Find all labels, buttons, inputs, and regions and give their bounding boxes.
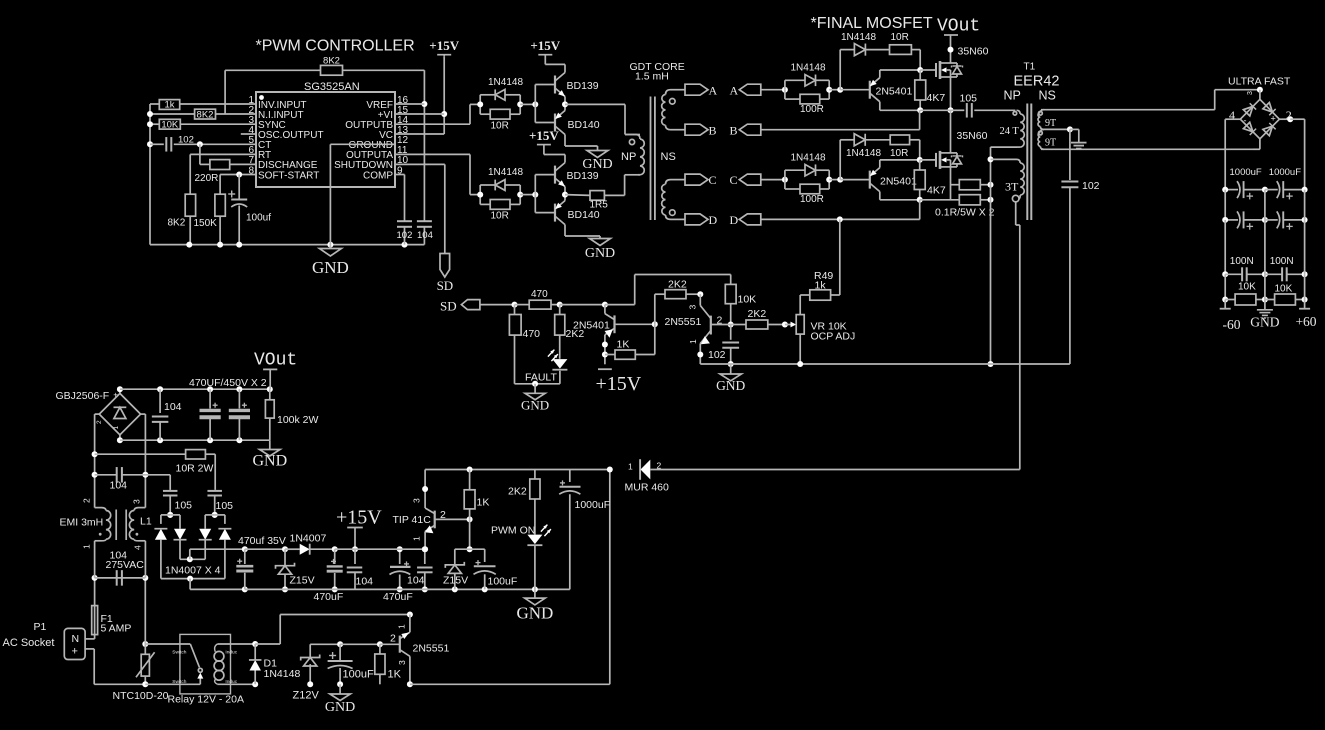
svg-text:102: 102 bbox=[178, 135, 194, 146]
svg-text:1: 1 bbox=[412, 536, 422, 541]
label 1000uF x2 bbox=[1230, 167, 1302, 178]
wire socket N to fuse bbox=[85, 635, 95, 639]
wire fuse up to rail bbox=[92, 575, 98, 601]
resistor 470 (pulldown) bbox=[509, 305, 540, 384]
svg-text:102: 102 bbox=[397, 230, 413, 241]
capacitor 470UF/450V A bbox=[200, 389, 221, 440]
svg-text:NP: NP bbox=[621, 151, 636, 163]
svg-text:470UF/450V X 2: 470UF/450V X 2 bbox=[189, 377, 267, 389]
led FAULT bbox=[525, 350, 567, 387]
svg-text:C: C bbox=[709, 173, 717, 187]
transistor BD140 (lower A) bbox=[535, 104, 599, 134]
label T1 EER42 bbox=[1004, 62, 1060, 103]
diode block right pair 1N4007 bbox=[199, 512, 232, 579]
connector D out bbox=[685, 213, 718, 227]
ground GND (relay) bbox=[325, 684, 355, 715]
svg-text:1.5 mH: 1.5 mH bbox=[635, 71, 669, 83]
wire NTC top from EMI bbox=[142, 575, 148, 644]
svg-text:3: 3 bbox=[412, 498, 422, 503]
connector P1 AC Socket bbox=[3, 621, 86, 660]
svg-text:100N: 100N bbox=[1230, 256, 1254, 267]
resistor 10K out right bbox=[1265, 274, 1308, 305]
power +15V (driver A) bbox=[530, 38, 565, 72]
svg-text:100uF: 100uF bbox=[343, 669, 374, 681]
wire z12 base rail bbox=[310, 641, 400, 647]
wire pin11 OUTPUTA bbox=[395, 154, 480, 194]
svg-text:3: 3 bbox=[132, 499, 142, 504]
svg-text:-60: -60 bbox=[1223, 317, 1241, 332]
svg-text:Z12V: Z12V bbox=[293, 690, 320, 702]
power +15V (aux) bbox=[336, 507, 382, 553]
capacitor 1000uF (boost) bbox=[559, 470, 610, 590]
capacitor 102 (T1 snubber) bbox=[1061, 129, 1099, 192]
left bus wire bbox=[147, 104, 153, 245]
svg-text:2N5551: 2N5551 bbox=[413, 643, 450, 655]
label 100N x2 bbox=[1230, 256, 1294, 267]
svg-text:GND: GND bbox=[516, 604, 553, 623]
svg-text:Relay 12V - 20A: Relay 12V - 20A bbox=[168, 694, 244, 706]
svg-text:D: D bbox=[709, 213, 718, 227]
resistor 1K (base) bbox=[605, 324, 655, 359]
connector C out bbox=[685, 173, 717, 187]
wire 102 down to sense bbox=[991, 187, 1070, 364]
diode 1N4148 / resistor 100R (input C) bbox=[782, 152, 843, 205]
svg-text:GND: GND bbox=[312, 258, 349, 277]
resistor 1R5 bbox=[565, 191, 625, 211]
wire sense line down bbox=[988, 159, 994, 367]
svg-text:2: 2 bbox=[82, 498, 92, 503]
svg-text:10K: 10K bbox=[1238, 282, 1256, 293]
capacitor 470uF (filter1) bbox=[314, 549, 344, 603]
svg-text:10R: 10R bbox=[491, 120, 509, 131]
svg-text:FAULT: FAULT bbox=[525, 372, 557, 384]
capacitor 1000uF out row2 right bbox=[1265, 190, 1308, 230]
wire feedback right to VREF bbox=[421, 70, 427, 221]
svg-text:1N4007: 1N4007 bbox=[290, 532, 327, 544]
svg-text:0.1R/5W X 2: 0.1R/5W X 2 bbox=[935, 206, 995, 218]
svg-text:1k: 1k bbox=[164, 100, 174, 111]
transistor 2N5401 (gate driver C) bbox=[840, 157, 923, 200]
svg-text:+60: +60 bbox=[1295, 314, 1316, 329]
svg-text:N: N bbox=[72, 633, 80, 645]
connector A in bbox=[730, 83, 785, 97]
wire emitters node A bbox=[562, 97, 568, 111]
diode 1N4148 / resistor 10R (driver B) bbox=[477, 167, 538, 222]
title PWM CONTROLLER bbox=[256, 38, 415, 55]
wire feedback left bbox=[224, 70, 226, 114]
svg-text:+: + bbox=[72, 646, 78, 658]
zener Z12V bbox=[293, 644, 320, 701]
svg-text:-: - bbox=[1244, 116, 1247, 126]
svg-text:8K2: 8K2 bbox=[168, 218, 186, 229]
svg-text:24 T: 24 T bbox=[1000, 126, 1020, 137]
resistor 1K (tip base) bbox=[464, 470, 489, 520]
capacitor 104 (aux b) bbox=[407, 546, 433, 592]
svg-text:AC Socket: AC Socket bbox=[3, 637, 55, 649]
svg-text:1: 1 bbox=[82, 544, 92, 549]
wire aux gnd rail bbox=[245, 586, 570, 592]
capacitor 105 (dc block) bbox=[951, 93, 1016, 118]
title FINAL MOSFET bbox=[811, 15, 933, 32]
svg-text:D: D bbox=[730, 213, 739, 227]
svg-text:SG3525AN: SG3525AN bbox=[304, 81, 360, 93]
mosfet 35N60 (lower) bbox=[936, 130, 988, 169]
resistor 150K bbox=[194, 194, 226, 244]
svg-text:*PWM CONTROLLER: *PWM CONTROLLER bbox=[256, 38, 415, 55]
capacitor 470uf 35V bbox=[236, 535, 286, 589]
svg-text:ULTRA FAST: ULTRA FAST bbox=[1228, 76, 1291, 88]
wire BD140 B collector to gnd bbox=[565, 225, 600, 239]
earth ground GND (output) bbox=[1250, 300, 1279, 330]
GDT secondary NS upper winding bbox=[662, 90, 685, 130]
svg-text:104: 104 bbox=[407, 575, 425, 587]
power +15V (driver B) bbox=[529, 128, 565, 163]
connector A out bbox=[685, 83, 718, 97]
svg-text:1: 1 bbox=[628, 462, 633, 472]
resistor 10K out left bbox=[1222, 274, 1268, 305]
svg-text:A: A bbox=[730, 83, 739, 97]
IC U1 SG3525AN body bbox=[256, 81, 395, 187]
svg-text:104: 104 bbox=[164, 401, 182, 413]
svg-text:*FINAL MOSFET: *FINAL MOSFET bbox=[811, 15, 933, 32]
relay box Relay 12V - 20A bbox=[168, 634, 244, 705]
svg-text:TIP 41C: TIP 41C bbox=[393, 514, 432, 526]
capacitor 100uF (base) bbox=[474, 549, 518, 589]
transistor BD139 (upper A) bbox=[535, 73, 598, 105]
wire pin14 OUTPUTB bbox=[395, 104, 480, 124]
wire pin16 VREF stub bbox=[395, 103, 424, 105]
T1 secondary 9T upper bbox=[1038, 110, 1056, 130]
svg-text:+15V: +15V bbox=[429, 38, 459, 53]
capacitor 104 (HV) bbox=[152, 389, 182, 440]
thermistor NTC10D-20 bbox=[113, 641, 169, 702]
transistor 2N5401 (gate driver A) bbox=[840, 67, 923, 110]
svg-text:1R5: 1R5 bbox=[590, 200, 609, 211]
svg-text:1N4007 X 4: 1N4007 X 4 bbox=[165, 565, 221, 577]
net label SD (pin10) bbox=[437, 254, 454, 293]
svg-text:35N60: 35N60 bbox=[957, 130, 988, 142]
resistor 2K2 (led) bbox=[555, 305, 585, 359]
resistor 8K2 (pin2) bbox=[150, 109, 256, 120]
svg-text:105: 105 bbox=[216, 500, 234, 512]
svg-text:+15V: +15V bbox=[596, 373, 642, 395]
svg-text:GND: GND bbox=[1250, 315, 1279, 330]
resistor 0.1R upper bbox=[951, 180, 994, 190]
svg-text:2: 2 bbox=[390, 633, 396, 645]
svg-text:P1: P1 bbox=[34, 621, 47, 633]
svg-text:A: A bbox=[709, 83, 718, 97]
svg-text:+15V: +15V bbox=[529, 128, 559, 143]
power VOut (HV bus) bbox=[254, 351, 297, 390]
capacitor 100uf (soft start) bbox=[228, 175, 271, 245]
label 1N4007 X 4 bbox=[165, 565, 221, 577]
transistor 2N5551 (relay driver) bbox=[390, 615, 449, 688]
svg-text:SD: SD bbox=[437, 278, 454, 293]
inductor L1 right winding bbox=[129, 499, 151, 578]
resistor 470 (sd series) bbox=[515, 289, 608, 309]
HV rail bottom bbox=[117, 437, 270, 443]
ground GND (pwm) bbox=[312, 245, 349, 277]
inductor EMI core bbox=[116, 510, 126, 541]
svg-text:BD140: BD140 bbox=[568, 119, 600, 131]
svg-text:OCP ADJ: OCP ADJ bbox=[811, 331, 856, 343]
wire mur to 3T bbox=[673, 469, 1020, 471]
transistor TIP 41C (pass) bbox=[393, 470, 473, 553]
ultra fast bridge diamond bbox=[1229, 90, 1292, 139]
inductor EMI 3mH left winding bbox=[60, 498, 111, 578]
capacitor 1000uF out row2 left bbox=[1222, 190, 1268, 230]
capacitor 102 (ocp filter) bbox=[708, 325, 739, 368]
svg-text:2N5551: 2N5551 bbox=[665, 316, 702, 328]
svg-text:SOFT-START: SOFT-START bbox=[258, 170, 319, 181]
capacitor 104 (vcc) bbox=[417, 221, 433, 244]
transistor 2N5401 (sd clamp) bbox=[573, 305, 658, 365]
svg-text:BD139: BD139 bbox=[567, 80, 599, 92]
power +15V (pwm) bbox=[429, 38, 459, 57]
svg-text:2K2: 2K2 bbox=[508, 486, 527, 498]
wire source A node bbox=[920, 77, 953, 113]
svg-text:2: 2 bbox=[717, 315, 723, 327]
diode 1N4148 series + resistor 10R (gate A) bbox=[840, 32, 920, 90]
wire pin10 SHUTDOWN to SD bbox=[395, 164, 445, 253]
capacitor 1000uF out row1 right bbox=[1265, 181, 1308, 199]
svg-text:Induc: Induc bbox=[225, 649, 237, 655]
ground GND (ocp) bbox=[716, 364, 745, 393]
svg-text:GND: GND bbox=[716, 378, 745, 393]
wire gate C bbox=[920, 159, 936, 161]
diode block left pair 1N4007 bbox=[154, 512, 186, 579]
svg-text:10K: 10K bbox=[738, 294, 757, 306]
diode MUR 460 bbox=[625, 459, 674, 493]
svg-text:EER42: EER42 bbox=[1014, 74, 1060, 90]
svg-text:1K: 1K bbox=[477, 497, 490, 509]
connector B in bbox=[730, 123, 761, 137]
wire aux minus rail bbox=[161, 576, 248, 593]
wire 9T top to bridge bbox=[1041, 87, 1263, 110]
svg-text:1K: 1K bbox=[388, 669, 402, 681]
wire sd to 10K bbox=[605, 275, 731, 305]
wire 3T to MUR460 bbox=[1016, 202, 1020, 470]
bridge GBJ2506-F bbox=[56, 389, 141, 440]
svg-text:470uF: 470uF bbox=[383, 591, 413, 603]
svg-text:1N4148: 1N4148 bbox=[488, 167, 523, 178]
ground GND (pwm led) bbox=[516, 589, 553, 622]
svg-text:104: 104 bbox=[110, 480, 128, 492]
gnd bus wire bbox=[150, 242, 424, 248]
svg-text:+15V: +15V bbox=[336, 507, 382, 529]
wire pin8 soft-start bbox=[220, 172, 256, 195]
resistor 2K2 (to vr) bbox=[731, 308, 788, 329]
IC U1 pin labels and numbers bbox=[248, 95, 408, 182]
svg-text:+15V: +15V bbox=[530, 38, 560, 53]
wire pin12 ground internal bbox=[330, 144, 395, 244]
resistor 10R 2W bbox=[95, 450, 216, 490]
svg-text:100R: 100R bbox=[800, 194, 824, 205]
svg-text:102: 102 bbox=[1082, 180, 1100, 192]
svg-text:T1: T1 bbox=[1024, 62, 1036, 73]
resistor 2K2 (feedback) bbox=[655, 279, 704, 325]
capacitor 102 (comp) bbox=[395, 175, 412, 245]
wire driver A output bbox=[565, 104, 640, 134]
mosfet 35N60 (upper) bbox=[936, 46, 989, 80]
svg-text:1N4148: 1N4148 bbox=[791, 62, 826, 73]
power +15V (sd clamp) bbox=[596, 369, 642, 395]
potentiometer VR 10K OCP ADJ bbox=[785, 295, 855, 367]
svg-text:2N5401: 2N5401 bbox=[876, 86, 913, 98]
svg-text:GND: GND bbox=[325, 700, 355, 715]
svg-text:NS: NS bbox=[1039, 89, 1056, 103]
svg-text:100N: 100N bbox=[1270, 256, 1294, 267]
capacitor 1000uF out row1 left bbox=[1222, 181, 1268, 199]
svg-text:1: 1 bbox=[397, 624, 407, 629]
wire pin6 RT down bbox=[190, 154, 256, 194]
svg-text:10K: 10K bbox=[1275, 284, 1293, 295]
svg-text:GND: GND bbox=[252, 453, 287, 470]
wire gnd rail right bbox=[410, 470, 610, 685]
svg-text:10R: 10R bbox=[491, 211, 509, 222]
capacitor 100N right bbox=[1265, 220, 1308, 281]
svg-text:2: 2 bbox=[440, 509, 446, 521]
terminal +60 bbox=[1295, 300, 1316, 330]
capacitor 470UF/450V B bbox=[229, 389, 250, 440]
HV rail top bbox=[117, 386, 273, 392]
svg-text:102: 102 bbox=[708, 349, 726, 361]
connector B out bbox=[685, 123, 717, 137]
label 10K x2 bbox=[1238, 282, 1293, 295]
wire NP bottom lead bbox=[625, 175, 640, 196]
svg-text:104: 104 bbox=[356, 576, 374, 588]
wire emitters node B bbox=[562, 187, 568, 201]
svg-text:3: 3 bbox=[1247, 91, 1254, 95]
wire BD140 A collector to gnd bbox=[565, 135, 598, 151]
resistor 1k (pin1) bbox=[150, 100, 256, 111]
GDT secondary NS lower winding bbox=[662, 180, 685, 220]
wire aux rail mid bbox=[335, 548, 425, 550]
svg-text:2K2: 2K2 bbox=[668, 279, 687, 291]
svg-text:9T: 9T bbox=[1045, 118, 1056, 129]
wire EMI left up to bridge bbox=[92, 414, 100, 508]
svg-text:2: 2 bbox=[96, 420, 103, 424]
ground GND (fault) bbox=[521, 384, 549, 413]
wire base node down bbox=[455, 519, 485, 552]
capacitor 105 (line L) bbox=[163, 491, 192, 518]
svg-text:B: B bbox=[730, 123, 738, 137]
connector SD bbox=[440, 299, 518, 314]
T1 aux 3T winding bbox=[991, 159, 1025, 202]
T1 primary 24T winding bbox=[988, 110, 1025, 162]
transistor BD139 (upper B) bbox=[535, 163, 598, 195]
svg-text:8K2: 8K2 bbox=[197, 109, 214, 120]
svg-text:BD140: BD140 bbox=[568, 209, 600, 221]
wire aux plus bus bbox=[180, 546, 248, 562]
capacitor 104 (aux a) bbox=[347, 549, 373, 589]
svg-text:150K: 150K bbox=[194, 218, 218, 229]
svg-text:L1: L1 bbox=[140, 516, 152, 528]
svg-text:1N4148: 1N4148 bbox=[846, 148, 881, 159]
zener Z15V (base) bbox=[443, 549, 468, 589]
svg-text:1N4148: 1N4148 bbox=[264, 668, 301, 680]
svg-text:275VAC: 275VAC bbox=[106, 559, 145, 571]
resistor 8K2 (RT) bbox=[168, 194, 196, 244]
svg-text:C: C bbox=[730, 173, 738, 187]
capacitor 104 (X top) bbox=[95, 467, 146, 491]
resistor 1K (relay base) bbox=[375, 644, 402, 684]
svg-text:1N4148: 1N4148 bbox=[488, 77, 523, 88]
capacitor 470uF (filter2) bbox=[383, 546, 413, 603]
resistor 100k 2W bbox=[265, 389, 318, 440]
fuse F1 5 AMP bbox=[92, 601, 132, 635]
resistor 8K2 (feedback top) bbox=[225, 56, 424, 76]
svg-text:3: 3 bbox=[688, 305, 698, 310]
wire ocp sense rail bbox=[700, 363, 990, 365]
svg-text:4K7: 4K7 bbox=[927, 92, 946, 104]
svg-text:1000uF: 1000uF bbox=[575, 499, 611, 511]
svg-text:1000uF: 1000uF bbox=[1230, 167, 1262, 178]
svg-text:1000uF: 1000uF bbox=[1269, 167, 1301, 178]
wire +15V to +VI and VC bbox=[395, 57, 447, 134]
diode D1 1N4148 bbox=[249, 641, 300, 687]
svg-text:104: 104 bbox=[417, 230, 433, 241]
resistor 10K (ocp collector) bbox=[725, 275, 756, 328]
svg-text:+: + bbox=[1271, 114, 1276, 124]
svg-text:5 AMP: 5 AMP bbox=[101, 623, 132, 635]
svg-text:2N5401: 2N5401 bbox=[573, 319, 610, 331]
wire center tap bbox=[1041, 126, 1079, 142]
svg-text:4K7: 4K7 bbox=[927, 185, 946, 197]
svg-text:Switch: Switch bbox=[172, 649, 186, 655]
svg-text:COMP: COMP bbox=[363, 170, 393, 181]
svg-text:470uf 35V: 470uf 35V bbox=[238, 535, 286, 547]
label GDT CORE bbox=[630, 61, 685, 83]
T1 secondary 9T lower bbox=[1038, 129, 1056, 149]
wire mains rail 275VAC bbox=[95, 577, 146, 579]
svg-text:NS: NS bbox=[661, 151, 676, 163]
svg-text:35N60: 35N60 bbox=[958, 46, 989, 58]
svg-text:470: 470 bbox=[523, 328, 541, 340]
capacitor 105 (line R) bbox=[207, 491, 233, 518]
terminal -60 bbox=[1220, 300, 1241, 333]
label 0.1R/5W X 2 bbox=[935, 206, 995, 218]
svg-text:100R: 100R bbox=[800, 104, 824, 115]
svg-text:EMI 3mH: EMI 3mH bbox=[60, 517, 104, 529]
svg-text:1: 1 bbox=[113, 426, 120, 430]
diode 1N4148 series + resistor 10R (gate C) bbox=[840, 134, 920, 180]
resistor 0.1R lower bbox=[959, 195, 993, 205]
svg-text:100k 2W: 100k 2W bbox=[277, 414, 319, 426]
wire pin4 stub bbox=[241, 133, 256, 135]
resistor 2K2 (pwm led) bbox=[508, 470, 540, 535]
connector D in bbox=[730, 213, 761, 227]
svg-text:NTC10D-20: NTC10D-20 bbox=[113, 690, 169, 702]
svg-text:GBJ2506-F: GBJ2506-F bbox=[56, 390, 110, 402]
svg-text:100uF: 100uF bbox=[488, 576, 518, 588]
svg-text:220R: 220R bbox=[195, 173, 219, 184]
svg-text:+: + bbox=[113, 391, 118, 400]
svg-text:BD139: BD139 bbox=[567, 170, 599, 182]
wire B return bbox=[761, 110, 920, 129]
svg-text:4: 4 bbox=[133, 545, 143, 550]
svg-text:10R: 10R bbox=[890, 148, 908, 159]
wire 104 right to 105 L bbox=[145, 475, 170, 490]
svg-text:2N5401: 2N5401 bbox=[880, 176, 917, 188]
svg-text:470uF: 470uF bbox=[314, 591, 344, 603]
svg-text:GND: GND bbox=[521, 398, 549, 413]
svg-text:3: 3 bbox=[397, 660, 407, 665]
svg-text:2K2: 2K2 bbox=[748, 308, 767, 320]
wire collector rail bbox=[425, 467, 613, 473]
svg-text:SD: SD bbox=[440, 299, 457, 314]
resistor R49 1k bbox=[800, 219, 840, 300]
